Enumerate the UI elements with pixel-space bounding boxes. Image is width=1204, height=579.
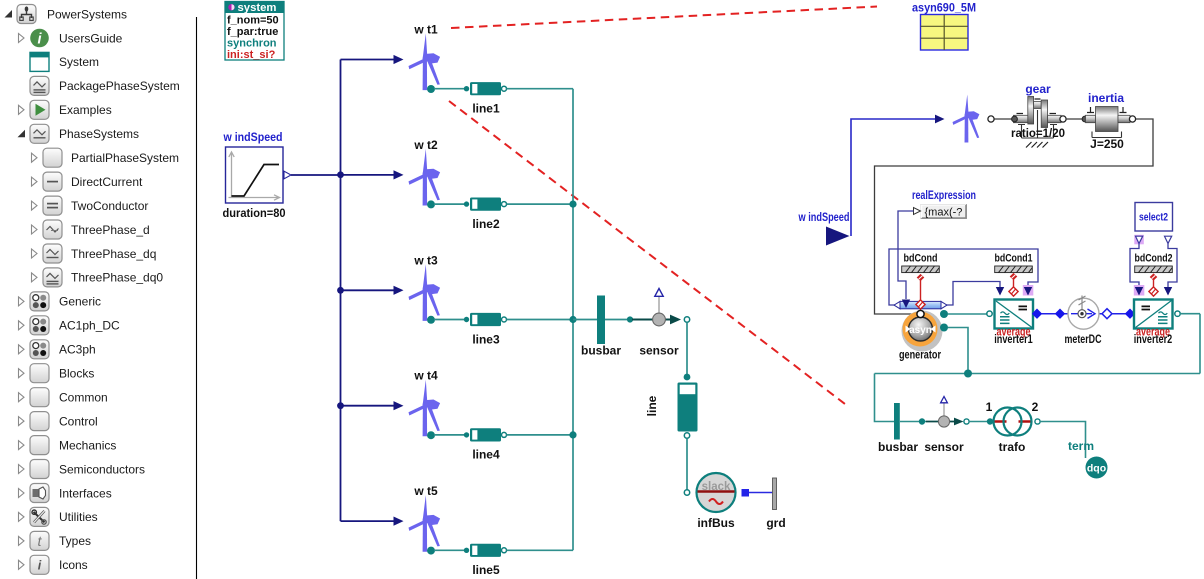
teal collector bus wire xyxy=(572,89,574,551)
svg-text:PackagePhaseSystem: PackagePhaseSystem xyxy=(59,79,180,93)
wire realExpression to generator control xyxy=(898,211,914,299)
node inverter2 DC diamond xyxy=(1125,309,1135,319)
svg-text:dqo: dqo xyxy=(1087,463,1106,475)
trafo transformer xyxy=(986,400,1039,454)
wire generator to inverter1 gate xyxy=(946,282,1000,306)
svg-text:sensor: sensor xyxy=(639,344,679,358)
tree item ThreePhase_dq0 xyxy=(32,268,164,287)
svg-text:w indSpeed: w indSpeed xyxy=(223,130,283,144)
tree item PartialPhaseSystem xyxy=(32,148,180,167)
wire sensor down to line xyxy=(686,323,688,375)
bus junction dot xyxy=(569,431,576,438)
svg-text:AC1ph_DC: AC1ph_DC xyxy=(59,319,120,333)
node bdCond heat diamond on shaft xyxy=(902,300,910,309)
svg-text:bdCond2: bdCond2 xyxy=(1135,253,1173,265)
tree item Blocks xyxy=(19,364,95,383)
node select2 output triangles xyxy=(1136,236,1143,243)
node inertia flange_b ring xyxy=(1129,116,1135,122)
node generator terminal b xyxy=(940,324,948,332)
tree item AC3ph xyxy=(19,340,96,359)
bus junction dot xyxy=(569,201,576,208)
wind turbine wt3 xyxy=(409,253,441,321)
sensor (right model) xyxy=(924,397,964,455)
tree item Mechanics xyxy=(19,436,117,455)
dqo reference bubble xyxy=(1086,457,1108,479)
wire wt4 to line4 xyxy=(434,434,464,436)
wire wt5 to line5 xyxy=(434,549,464,551)
branch wire + arrow to wt4 xyxy=(341,401,404,410)
svg-text:gear: gear xyxy=(1025,82,1051,96)
wire line3 to bus xyxy=(507,319,574,321)
svg-text:asyn690_5M: asyn690_5M xyxy=(912,1,976,15)
svg-text:J=250: J=250 xyxy=(1090,137,1124,151)
wire gear input xyxy=(994,118,1013,120)
svg-text:term: term xyxy=(1068,439,1094,453)
wire busbar to sensor xyxy=(900,421,926,423)
svg-text:Blocks: Blocks xyxy=(59,367,94,381)
node sensor output ring xyxy=(684,317,689,322)
red dashed annotation line 1 (wt1 to asyn690_5M) xyxy=(451,7,877,29)
bdCond boundary condition block xyxy=(902,253,940,273)
node line bottom ring xyxy=(684,433,689,438)
tree item UsersGuide xyxy=(19,29,123,48)
gear (ideal gear ratio=1/20) xyxy=(1011,82,1065,148)
svg-text:Semiconductors: Semiconductors xyxy=(59,462,145,476)
tree item Common xyxy=(19,388,108,407)
svg-text:line4: line4 xyxy=(472,448,500,462)
wire line5 to bus xyxy=(507,549,574,551)
svg-text:Common: Common xyxy=(59,391,108,405)
tree item PhaseSystems xyxy=(18,124,140,143)
generator (asyn machine) xyxy=(899,311,943,362)
svg-text:TwoConductor: TwoConductor xyxy=(71,199,148,213)
svg-text:line1: line1 xyxy=(472,102,500,116)
trunk junction dot xyxy=(337,171,344,178)
svg-text:trafo: trafo xyxy=(999,440,1026,454)
asyn690_5M data table xyxy=(912,1,976,51)
svg-text:1: 1 xyxy=(986,400,993,414)
wind turbine wt5 xyxy=(409,484,441,552)
svg-text:meterDC: meterDC xyxy=(1065,332,1102,346)
node DC junction diamond xyxy=(1055,309,1065,319)
svg-text:grd: grd xyxy=(766,516,785,530)
svg-text:w indSpeed: w indSpeed xyxy=(798,210,850,224)
tree item Control xyxy=(19,412,98,431)
line2 block xyxy=(464,198,507,231)
wire wt2 to line2 xyxy=(434,203,464,205)
wind turbine wt2 xyxy=(409,138,441,206)
svg-text:ThreePhase_d: ThreePhase_d xyxy=(71,223,150,237)
bdCond2 heat port wire xyxy=(1150,273,1158,280)
node wt1 terminal xyxy=(427,85,435,93)
wire line2 to bus xyxy=(507,203,574,205)
svg-text:DirectCurrent: DirectCurrent xyxy=(71,175,143,189)
busbar xyxy=(581,296,621,358)
node trafo terminal 1 xyxy=(987,418,993,424)
node inverter2 AC ring xyxy=(1175,311,1180,316)
svg-text:ratio=1/20: ratio=1/20 xyxy=(1011,126,1065,140)
purple square select2 left output xyxy=(1134,235,1144,245)
svg-text:Utilities: Utilities xyxy=(59,510,98,524)
wire select2 to inverter2 gate (right) xyxy=(1168,244,1177,288)
wire infBus to grd xyxy=(749,492,773,494)
tree item DirectCurrent xyxy=(32,172,144,191)
svg-text:UsersGuide: UsersGuide xyxy=(59,31,123,45)
svg-text:inverter1: inverter1 xyxy=(994,334,1033,346)
svg-text:line5: line5 xyxy=(472,563,500,577)
tree item Semiconductors xyxy=(19,460,146,479)
tree item Generic xyxy=(19,292,102,311)
svg-text:sensor: sensor xyxy=(924,440,964,454)
svg-text:w t2: w t2 xyxy=(413,138,438,152)
node wt3 terminal xyxy=(427,316,435,324)
svg-text:realExpression: realExpression xyxy=(912,188,976,202)
trunk junction dot xyxy=(337,402,344,409)
svg-text:bdCond: bdCond xyxy=(904,253,938,265)
svg-text:select2: select2 xyxy=(1139,212,1168,224)
tree item PowerSystems xyxy=(5,5,128,24)
branch wire + arrow to wt3 xyxy=(341,286,404,295)
purple connector square (inverter1 right gate) xyxy=(1023,285,1034,296)
bdCond2 boundary condition block xyxy=(1135,253,1173,273)
red dashed annotation line 2 (diagonal) xyxy=(449,101,845,404)
svg-text:infBus: infBus xyxy=(697,516,735,530)
tree item AC1ph_DC xyxy=(19,316,121,335)
svg-text:Control: Control xyxy=(59,414,98,428)
panel divider xyxy=(196,17,198,579)
node busbar-sensor xyxy=(919,418,925,424)
wire sensor to trafo xyxy=(969,421,988,423)
svg-text:ini:st_si?: ini:st_si? xyxy=(227,49,276,61)
line5 block xyxy=(464,544,507,577)
wire line1 to bus xyxy=(507,88,574,90)
node gear flange_b ring xyxy=(1060,116,1066,122)
wire generator down to bus xyxy=(948,328,968,374)
node inverter1 AC ring xyxy=(987,311,992,316)
svg-text:asyn: asyn xyxy=(909,325,932,336)
wire gear to inertia xyxy=(1066,118,1084,120)
svg-text:System: System xyxy=(59,55,99,69)
node generator flange (white circle) xyxy=(917,310,924,317)
tree item Utilities xyxy=(19,507,98,526)
svg-text:ThreePhase_dq0: ThreePhase_dq0 xyxy=(71,271,163,285)
svg-text:system: system xyxy=(238,2,277,14)
line3 block xyxy=(464,313,507,346)
wind turbine rotor (right model) xyxy=(953,94,980,142)
wire select2 to inverter2 gate (left) xyxy=(1130,244,1139,288)
svg-text:busbar: busbar xyxy=(581,344,621,358)
grd ground bar xyxy=(766,478,785,530)
windSpeed ramp source block xyxy=(223,130,292,220)
bdCond heat port wire xyxy=(917,274,925,281)
svg-text:AC3ph: AC3ph xyxy=(59,343,96,357)
wire wt1 to line1 xyxy=(434,88,464,90)
infBus slack source xyxy=(697,473,736,530)
line4 block xyxy=(464,428,507,461)
wire wt3 to line3 xyxy=(434,319,464,321)
svg-text:inertia: inertia xyxy=(1088,91,1124,105)
navy trunk wire xyxy=(340,60,342,522)
node inverter1 DC diamond xyxy=(1032,309,1042,319)
svg-text:PowerSystems: PowerSystems xyxy=(47,7,127,21)
wire generator to inverter1 xyxy=(948,313,987,315)
svg-text:Interfaces: Interfaces xyxy=(59,486,112,500)
system parameter box xyxy=(225,2,284,62)
svg-text:f_par:true: f_par:true xyxy=(227,26,278,38)
wind turbine wt1 xyxy=(409,23,441,91)
inertia J=250 xyxy=(1082,91,1130,151)
svg-text:line3: line3 xyxy=(472,332,500,346)
svg-text:Mechanics: Mechanics xyxy=(59,438,116,452)
inverter2 (average) xyxy=(1134,300,1173,347)
select2 block xyxy=(1135,203,1173,232)
node wt5 terminal xyxy=(427,547,435,555)
svg-text:PartialPhaseSystem: PartialPhaseSystem xyxy=(71,151,179,165)
busbar (right model) xyxy=(878,403,918,454)
wire windSpeed to turbine rotor xyxy=(851,119,936,236)
svg-text:synchron: synchron xyxy=(227,38,277,50)
node junction on lower bus xyxy=(964,370,972,378)
bdCond1 heat port wire xyxy=(1010,273,1018,280)
branch wire + arrow to wt1 xyxy=(341,55,404,64)
svg-text:w t5: w t5 xyxy=(413,484,438,498)
node generator terminal a xyxy=(940,310,948,318)
svg-text:Icons: Icons xyxy=(59,558,88,572)
svg-text:i: i xyxy=(38,558,42,572)
tree item PackagePhaseSystem xyxy=(30,76,180,95)
svg-text:ThreePhase_dq: ThreePhase_dq xyxy=(71,247,156,261)
wind turbine wt4 xyxy=(409,369,441,437)
line (vertical transmission line block) xyxy=(645,383,698,432)
blue connector square xyxy=(742,489,750,497)
wire inverter2 to lower bus xyxy=(1180,313,1200,315)
svg-text:Examples: Examples xyxy=(59,103,112,117)
svg-text:generator: generator xyxy=(899,348,941,362)
inverter1 (average) xyxy=(994,300,1033,347)
wire trafo to term xyxy=(1040,422,1086,459)
node wt4 terminal xyxy=(427,431,435,439)
svg-text:2: 2 xyxy=(1032,400,1039,414)
tree item ThreePhase_dq xyxy=(32,244,157,263)
tree item Icons xyxy=(19,555,88,574)
bus junction dot xyxy=(569,316,576,323)
svg-text:bdCond1: bdCond1 xyxy=(995,253,1033,265)
meterDC xyxy=(1065,296,1102,347)
wire lower teal bus xyxy=(875,314,1201,422)
branch wire + arrow to wt2 xyxy=(341,170,404,179)
svg-text:{max(-?: {max(-? xyxy=(925,207,963,219)
node sensor output ring xyxy=(964,419,969,424)
sensor (power sensor) xyxy=(632,289,681,358)
tree item Types xyxy=(19,531,92,550)
DC wire inverter1-meterDC-inverter2 xyxy=(1037,313,1134,315)
svg-text:f_nom=50: f_nom=50 xyxy=(227,15,279,27)
node busbar-sensor xyxy=(627,316,633,322)
wire bdCond bracket xyxy=(889,249,1038,305)
trunk junction dot xyxy=(337,287,344,294)
wire bus to busbar/sensor xyxy=(573,319,632,321)
windSpeed input connector (right model) xyxy=(798,210,850,246)
wire line to infBus xyxy=(686,439,688,491)
line1 block xyxy=(464,82,507,115)
svg-text:line: line xyxy=(645,395,659,416)
svg-text:w t3: w t3 xyxy=(413,253,438,267)
svg-text:w t4: w t4 xyxy=(413,369,438,383)
svg-text:Generic: Generic xyxy=(59,295,101,309)
tree item System xyxy=(30,52,99,71)
tree item TwoConductor xyxy=(32,196,149,215)
node wt2 terminal xyxy=(427,200,435,208)
tree item Interfaces xyxy=(19,484,112,503)
tree item Examples xyxy=(19,100,112,119)
node line top xyxy=(684,374,691,381)
generator shaft cylinder xyxy=(894,301,947,308)
svg-text:inverter2: inverter2 xyxy=(1134,334,1173,346)
mechanical flange wire (inertia to generator) xyxy=(875,119,1154,314)
realExpression block xyxy=(912,188,976,219)
svg-text:Types: Types xyxy=(59,534,91,548)
branch wire + arrow to wt5 xyxy=(341,517,404,526)
svg-text:w t1: w t1 xyxy=(413,23,438,37)
node gear flange_a ring xyxy=(988,116,994,122)
svg-text:line2: line2 xyxy=(472,217,500,231)
tree item ThreePhase_d xyxy=(32,220,150,239)
wire line4 to bus xyxy=(507,434,574,436)
wire windSpeed output to trunk xyxy=(291,174,341,176)
bdCond1 boundary condition block xyxy=(995,253,1033,273)
svg-text:duration=80: duration=80 xyxy=(223,206,286,220)
node infBus ring xyxy=(684,490,689,495)
svg-text:busbar: busbar xyxy=(878,440,918,454)
svg-text:PhaseSystems: PhaseSystems xyxy=(59,127,139,141)
node trafo terminal 2 ring xyxy=(1035,419,1040,424)
node meter output diamond (open) xyxy=(1102,309,1112,319)
